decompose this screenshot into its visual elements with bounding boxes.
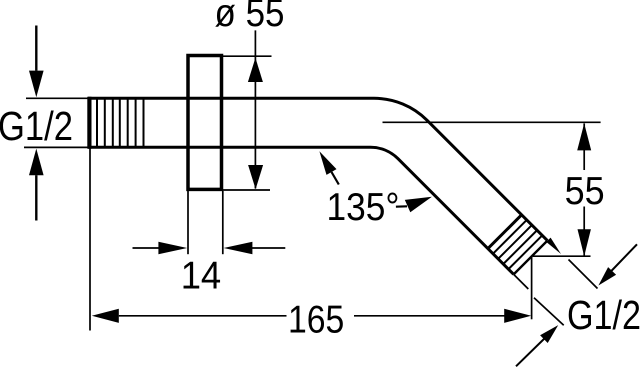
svg-text:ø 55: ø 55 [215,0,285,35]
inlet thread hatch lines [97,98,144,147]
165 left extension line [89,147,91,330]
14 right arrow (pointing left) [224,242,253,255]
55 right dimension line lower segment with down arrowhead [583,207,585,256]
55 right extension line (horizontal at outlet mouth) [533,255,591,257]
G1/2 left top extension line [26,97,88,99]
G1/2 right upper extension line (diagonal) [569,260,598,289]
outlet thread hatch lines [493,220,542,269]
14 left extension line [187,191,189,254]
14 right extension line [222,191,224,254]
ø55 top arrowhead (pointing up) [248,58,263,82]
pipe top edge (horizontal, bend fillet, diagonal to outlet mouth upper corner) [88,98,547,240]
G1/2 right lower leader arrow (pointing up-right) [516,337,547,367]
ø55 bottom extension line [223,189,270,191]
wall flange [188,56,222,190]
G1/2 left bottom extension line [24,146,88,148]
ø55 top extension line [223,55,272,57]
135° dash and arrow to diagonal edge (pointing right) [396,205,407,208]
ø55 bottom arrowhead (pointing down) [248,165,263,189]
svg-text:165: 165 [288,298,344,341]
svg-text:14: 14 [181,255,222,298]
165 right extension line [531,256,533,319]
outlet mouth chamfer wedge [546,238,561,254]
G1/2 left bottom arrow (pointing up) [29,149,44,176]
centerline of horizontal pipe (extension for 55 dim) [383,121,601,123]
135° arrow to horizontal edge (pointing up-left) [332,172,339,185]
svg-text:135°: 135° [327,186,400,229]
55 right dimension line upper segment with up arrowhead [583,123,585,170]
G1/2 left top arrow (pointing down) [35,26,37,71]
G1/2 right lower extension line (diagonal) [534,298,564,325]
svg-text:G1/2: G1/2 [0,103,73,149]
165 dimension line left segment with left arrowhead [92,309,119,323]
G1/2 right upper leader arrow (pointing down-left) [606,244,637,276]
outlet mouth face [514,241,548,275]
outlet thread start line [488,215,522,249]
outlet lower edge thin extension [514,274,529,289]
14 left arrow (pointing right) [133,247,161,249]
ø55 dimension line [254,30,256,188]
inlet mouth face (thick end bar) [87,97,91,149]
svg-text:G1/2: G1/2 [567,292,640,338]
pipe bottom edge (horizontal, bend fillet, diagonal to outlet mouth lower corner) [88,147,514,274]
165 dimension line right segment with right arrowhead [354,315,505,317]
svg-text:55: 55 [565,170,605,213]
